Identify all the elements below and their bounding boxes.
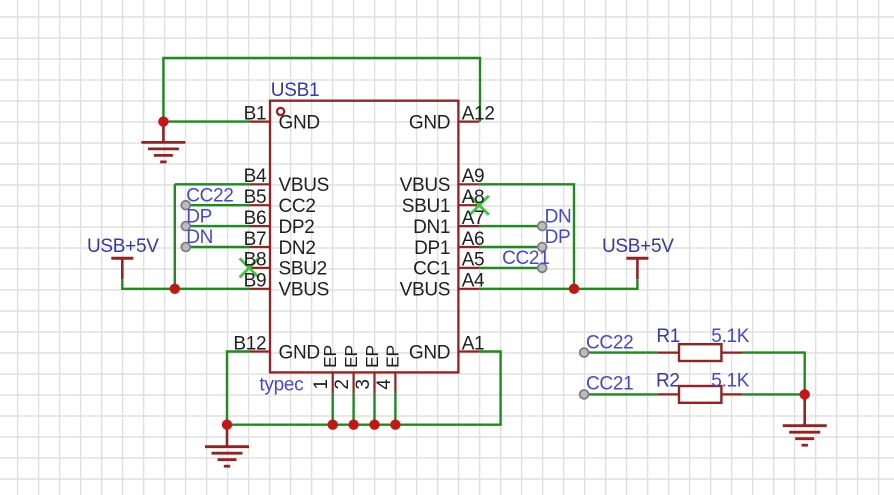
svg-text:GND: GND — [409, 342, 450, 363]
svg-text:EP: EP — [383, 345, 403, 368]
svg-text:VBUS: VBUS — [400, 280, 451, 301]
svg-text:B4: B4 — [244, 166, 267, 187]
svg-text:A12: A12 — [462, 103, 495, 124]
svg-text:3: 3 — [353, 379, 374, 389]
svg-text:5.1K: 5.1K — [711, 326, 750, 347]
svg-text:USB1: USB1 — [271, 80, 319, 101]
svg-text:CC2: CC2 — [279, 196, 316, 217]
svg-text:DP: DP — [545, 227, 571, 248]
svg-text:GND: GND — [279, 342, 320, 363]
svg-text:B12: B12 — [233, 333, 266, 354]
svg-text:SBU1: SBU1 — [402, 196, 450, 217]
svg-text:CC21: CC21 — [586, 374, 633, 395]
svg-text:DN2: DN2 — [279, 238, 316, 259]
svg-text:B8: B8 — [244, 250, 267, 271]
svg-text:EP: EP — [320, 345, 340, 368]
svg-text:B9: B9 — [244, 271, 267, 292]
svg-text:B6: B6 — [244, 208, 267, 229]
svg-text:VBUS: VBUS — [279, 280, 330, 301]
svg-text:DP1: DP1 — [414, 238, 450, 259]
svg-text:2: 2 — [332, 379, 353, 389]
svg-text:GND: GND — [409, 112, 450, 133]
svg-text:A6: A6 — [462, 229, 485, 250]
svg-text:SBU2: SBU2 — [279, 259, 327, 280]
svg-text:DN: DN — [186, 227, 213, 248]
svg-text:B5: B5 — [244, 187, 267, 208]
svg-text:GND: GND — [279, 112, 320, 133]
svg-text:VBUS: VBUS — [279, 175, 330, 196]
svg-text:5.1K: 5.1K — [711, 371, 750, 392]
svg-text:DP2: DP2 — [279, 217, 315, 238]
svg-text:DP: DP — [186, 206, 212, 227]
svg-text:A7: A7 — [462, 208, 485, 229]
svg-text:DN: DN — [545, 206, 572, 227]
svg-text:1: 1 — [311, 379, 332, 389]
svg-text:A1: A1 — [462, 333, 485, 354]
svg-text:CC22: CC22 — [586, 332, 633, 353]
svg-text:A5: A5 — [462, 250, 485, 271]
svg-text:A4: A4 — [462, 271, 485, 292]
svg-text:A9: A9 — [462, 166, 485, 187]
svg-text:B7: B7 — [244, 229, 267, 250]
svg-text:CC1: CC1 — [413, 259, 450, 280]
svg-text:EP: EP — [362, 345, 382, 368]
svg-text:DN1: DN1 — [413, 217, 450, 238]
svg-text:R1: R1 — [656, 326, 680, 347]
svg-text:CC22: CC22 — [186, 185, 233, 206]
svg-text:typec: typec — [259, 375, 303, 396]
svg-text:CC21: CC21 — [502, 248, 549, 269]
svg-text:R2: R2 — [656, 371, 680, 392]
svg-text:4: 4 — [374, 379, 395, 390]
svg-text:B1: B1 — [244, 103, 267, 124]
svg-text:A8: A8 — [462, 187, 485, 208]
svg-text:EP: EP — [341, 345, 361, 368]
svg-text:USB+5V: USB+5V — [602, 236, 674, 257]
svg-text:VBUS: VBUS — [400, 175, 451, 196]
svg-text:USB+5V: USB+5V — [87, 236, 159, 257]
